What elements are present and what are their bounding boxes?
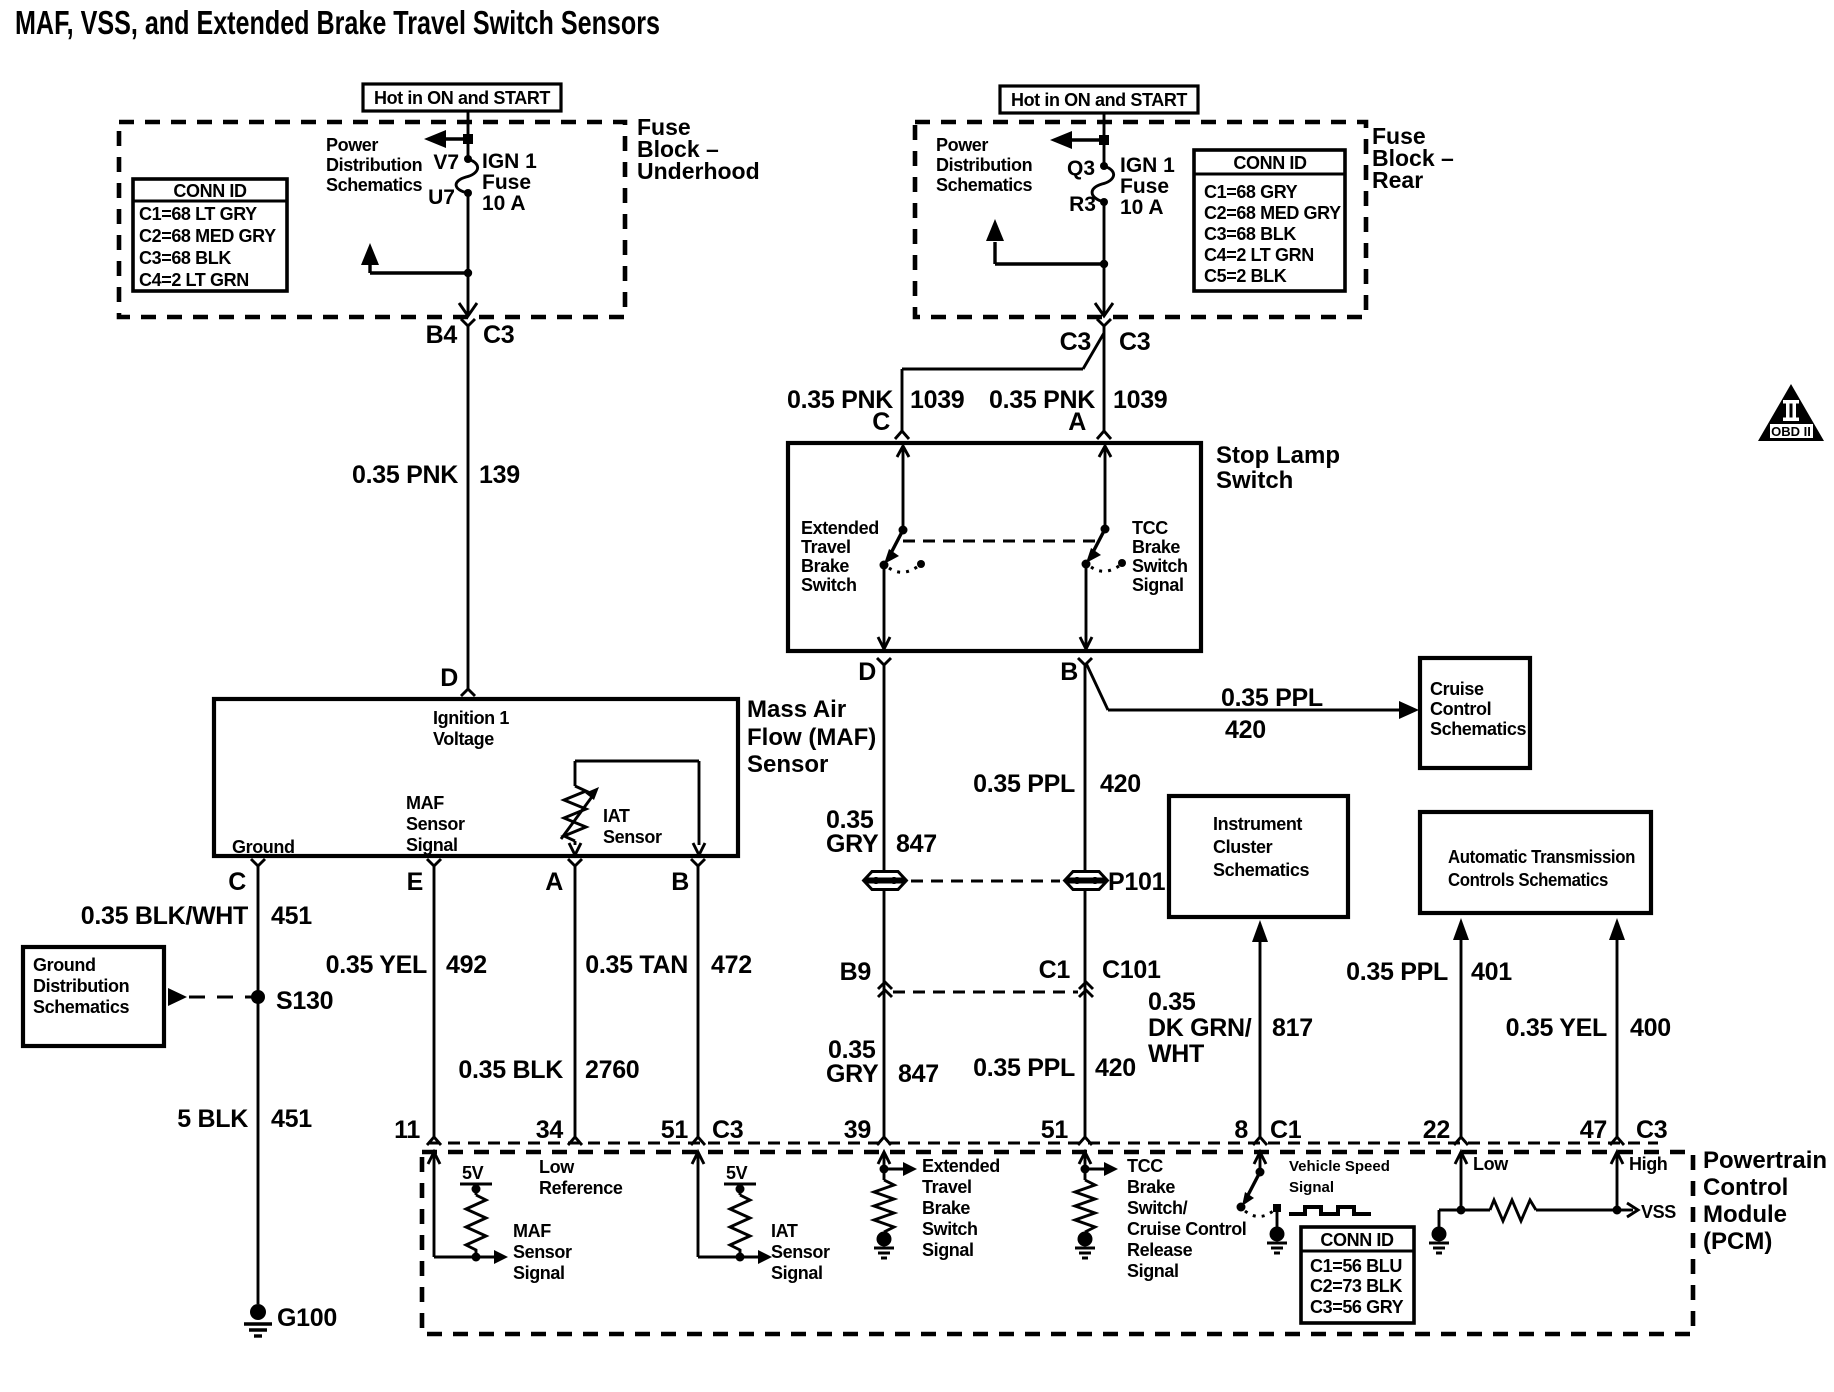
svg-text:Brake: Brake — [1132, 537, 1180, 557]
fuse IGN 1 10A (underhood, V7/U7) — [456, 155, 478, 197]
pin 39 — [844, 1116, 891, 1145]
svg-text:451: 451 — [271, 1105, 312, 1133]
svg-text:Automatic Transmission: Automatic Transmission — [1448, 847, 1635, 867]
svg-text:Schematics: Schematics — [1213, 860, 1309, 880]
svg-text:C4=2 LT GRN: C4=2 LT GRN — [139, 270, 249, 290]
wire label 0.35 PPL 420 (upper) — [973, 770, 1141, 798]
connector C3/C3 (rear fuse to harness) — [1060, 319, 1151, 356]
svg-text:Distribution: Distribution — [326, 155, 422, 175]
power distribution schematics note (underhood) — [326, 135, 422, 195]
svg-text:A: A — [1068, 408, 1086, 436]
svg-text:C5=2 BLK: C5=2 BLK — [1204, 266, 1287, 286]
wire 472: MAF B to PCM pin 51 C3 — [697, 866, 700, 1137]
MAF pin connectors C E A B — [251, 859, 705, 866]
OBD II symbol — [1758, 384, 1824, 441]
PCM maf signal input (pin 11) — [428, 1152, 508, 1264]
svg-text:C3: C3 — [712, 1116, 743, 1144]
svg-text:IGN 1: IGN 1 — [482, 150, 537, 173]
svg-text:420: 420 — [1225, 716, 1266, 744]
power distribution schematics note (rear) — [936, 135, 1032, 195]
5V pullup for IAT signal — [724, 1163, 756, 1257]
down arrow IAT A pin — [569, 843, 581, 855]
svg-text:34: 34 — [536, 1116, 564, 1144]
svg-text:10 A: 10 A — [482, 192, 526, 215]
MAF sensor box — [214, 699, 738, 856]
svg-text:5 BLK: 5 BLK — [177, 1105, 248, 1133]
svg-text:Mass Air: Mass Air — [747, 696, 846, 723]
svg-text:5V: 5V — [462, 1163, 484, 1183]
svg-text:S130: S130 — [276, 987, 333, 1015]
label extended travel brake switch — [801, 518, 879, 595]
svg-text:1039: 1039 — [1113, 386, 1167, 414]
svg-text:C1=68 GRY: C1=68 GRY — [1204, 182, 1298, 202]
svg-text:Release: Release — [1127, 1240, 1193, 1260]
IAT sensor internal circuit — [561, 761, 699, 845]
svg-text:847: 847 — [898, 1060, 939, 1088]
fuse IGN 1 10A (rear, Q3/R3) — [1092, 162, 1114, 206]
wire 2760: MAF A to PCM pin 34 — [574, 866, 577, 1137]
svg-text:R3: R3 — [1069, 193, 1096, 216]
connector C at stop lamp switch — [872, 408, 909, 439]
svg-text:C3=68 BLK: C3=68 BLK — [1204, 224, 1296, 244]
svg-text:C3=68 BLK: C3=68 BLK — [139, 248, 231, 268]
label MAF sensor signal (PCM) — [513, 1221, 572, 1283]
svg-text:TCC: TCC — [1132, 518, 1168, 538]
PCM tcc brake input (pin 51 C2) — [1075, 1152, 1118, 1258]
svg-text:Travel: Travel — [801, 537, 851, 557]
svg-text:Schematics: Schematics — [326, 175, 422, 195]
svg-text:MAF: MAF — [406, 793, 444, 813]
svg-text:VSS: VSS — [1641, 1202, 1676, 1222]
dashed link between P101 grommets — [911, 880, 1060, 883]
svg-text:Signal: Signal — [406, 835, 458, 855]
svg-text:Extended: Extended — [801, 518, 879, 538]
svg-text:Sensor: Sensor — [513, 1242, 572, 1262]
svg-text:Signal: Signal — [771, 1263, 823, 1283]
pin 34 — [536, 1116, 582, 1145]
svg-text:Sensor: Sensor — [747, 751, 828, 778]
svg-text:Low: Low — [1473, 1154, 1509, 1174]
svg-text:Sensor: Sensor — [406, 814, 465, 834]
PCM vss high input (pin 47) — [1611, 1152, 1623, 1215]
svg-text:DK GRN/: DK GRN/ — [1148, 1014, 1252, 1042]
fuse value label IGN 1 Fuse 10 A — [482, 150, 537, 215]
wire label 0.35 YEL 492 — [326, 951, 487, 979]
svg-text:WHT: WHT — [1148, 1040, 1204, 1068]
svg-text:47: 47 — [1580, 1116, 1607, 1144]
label vehicle speed signal — [1289, 1158, 1390, 1196]
svg-text:Controls Schematics: Controls Schematics — [1448, 870, 1608, 890]
wire label 0.35 PNK 139 — [352, 461, 520, 489]
wire 847: stop lamp D down to PCM pin 39 — [883, 665, 886, 1137]
fuse terminal labels V7 U7 — [428, 151, 459, 209]
svg-text:C1=68 LT GRY: C1=68 LT GRY — [139, 204, 257, 224]
wire 817: PCM pin 8 up to instrument cluster — [1252, 920, 1268, 1137]
wire: harness down to branch point — [1103, 326, 1106, 431]
ground distribution schematics box — [23, 947, 164, 1046]
square wave symbol — [1289, 1207, 1371, 1214]
svg-text:139: 139 — [479, 461, 520, 489]
dashed reference link to S130 — [168, 988, 258, 1006]
stop lamp switch box — [788, 443, 1201, 651]
svg-text:C3: C3 — [483, 321, 514, 349]
svg-text:Ground: Ground — [232, 837, 295, 857]
connector D at MAF sensor — [440, 664, 475, 696]
svg-text:C101: C101 — [1102, 956, 1161, 984]
svg-text:400: 400 — [1630, 1014, 1671, 1042]
pin 47 C3 — [1580, 1116, 1668, 1145]
svg-text:Travel: Travel — [922, 1177, 972, 1197]
PCM vehicle speed switch (pin 8) — [1237, 1152, 1288, 1253]
svg-text:C3: C3 — [1119, 328, 1150, 356]
svg-text:0.35 YEL: 0.35 YEL — [1506, 1014, 1607, 1042]
svg-text:492: 492 — [446, 951, 487, 979]
svg-text:V7: V7 — [433, 151, 459, 174]
wire 400: PCM pin 47 up to automatic transmission — [1609, 918, 1625, 1137]
svg-text:Distribution: Distribution — [936, 155, 1032, 175]
PCM extended travel input (pin 39) — [874, 1152, 917, 1258]
label extended travel brake switch signal — [922, 1156, 1000, 1260]
fuse terminal labels Q3 R3 — [1067, 157, 1096, 216]
connector B4/C3 — [426, 319, 515, 349]
svg-text:B4: B4 — [426, 321, 458, 349]
svg-text:C: C — [872, 408, 890, 436]
dashed mechanical link between switch poles — [903, 540, 1095, 543]
ground G100 — [244, 1304, 337, 1336]
svg-text:401: 401 — [1471, 958, 1512, 986]
svg-text:B: B — [1060, 658, 1078, 686]
fuse block rear dashed outline — [915, 122, 1366, 317]
grommet P101 on wire 847 — [865, 872, 905, 890]
svg-text:A: A — [545, 868, 563, 896]
svg-text:Switch: Switch — [1132, 556, 1188, 576]
svg-text:High: High — [1629, 1154, 1667, 1174]
svg-text:Signal: Signal — [513, 1263, 565, 1283]
svg-text:Reference: Reference — [539, 1178, 623, 1198]
svg-text:Fuse: Fuse — [1120, 175, 1169, 198]
svg-text:Instrument: Instrument — [1213, 814, 1302, 834]
svg-text:CONN ID: CONN ID — [1320, 1230, 1394, 1250]
label IAT sensor signal (PCM) — [771, 1221, 830, 1283]
svg-text:451: 451 — [271, 902, 312, 930]
svg-text:CONN ID: CONN ID — [173, 181, 247, 201]
connector D below stop lamp switch — [858, 658, 891, 686]
svg-text:Brake: Brake — [1127, 1177, 1175, 1197]
svg-text:0.35 TAN: 0.35 TAN — [585, 951, 688, 979]
wire label 0.35 GRY 847 (upper) — [826, 806, 937, 858]
svg-text:TCC: TCC — [1127, 1156, 1163, 1176]
splice S130 — [251, 987, 333, 1015]
svg-text:Schematics: Schematics — [33, 997, 129, 1017]
label ignition 1 voltage — [433, 708, 509, 749]
svg-text:MAF, VSS, and Extended Brake T: MAF, VSS, and Extended Brake Travel Swit… — [15, 4, 660, 41]
svg-text:C3=56 GRY: C3=56 GRY — [1310, 1297, 1404, 1317]
svg-text:420: 420 — [1100, 770, 1141, 798]
svg-text:8: 8 — [1234, 1116, 1248, 1144]
svg-text:Cruise: Cruise — [1430, 679, 1484, 699]
label tcc brake switch / cruise control release signal — [1127, 1156, 1246, 1281]
svg-text:E: E — [407, 868, 423, 896]
PCM iat signal input (pin 51 C3) — [692, 1152, 772, 1264]
svg-text:C2=73 BLK: C2=73 BLK — [1310, 1276, 1402, 1296]
svg-text:0.35 YEL: 0.35 YEL — [326, 951, 427, 979]
svg-text:Ignition 1: Ignition 1 — [433, 708, 509, 728]
svg-text:Schematics: Schematics — [1430, 719, 1526, 739]
svg-text:847: 847 — [896, 830, 937, 858]
svg-text:Control: Control — [1703, 1174, 1788, 1201]
svg-text:Hot in ON and START: Hot in ON and START — [374, 88, 550, 108]
label low reference (pin 34) — [539, 1157, 623, 1198]
svg-text:Hot in ON and START: Hot in ON and START — [1011, 90, 1187, 110]
svg-text:Stop Lamp: Stop Lamp — [1216, 442, 1340, 469]
wire label 0.35 BLK/WHT 451 — [81, 902, 312, 930]
svg-text:IAT: IAT — [771, 1221, 798, 1241]
svg-text:Signal: Signal — [1289, 1179, 1334, 1196]
wire label 0.35 PPL 401 — [1346, 958, 1512, 986]
wire label 0.35 PPL 420 (cruise branch) — [1221, 684, 1323, 744]
svg-text:Fuse: Fuse — [482, 171, 531, 194]
svg-text:Cruise Control: Cruise Control — [1127, 1219, 1246, 1239]
svg-text:5V: 5V — [726, 1163, 748, 1183]
svg-text:Brake: Brake — [801, 556, 849, 576]
fuse block underhood name — [637, 114, 760, 184]
svg-text:Flow (MAF): Flow (MAF) — [747, 724, 876, 751]
svg-text:Module: Module — [1703, 1201, 1787, 1228]
svg-text:Extended: Extended — [922, 1156, 1000, 1176]
svg-text:Switch: Switch — [801, 575, 857, 595]
svg-text:Sensor: Sensor — [771, 1242, 830, 1262]
wire 492: MAF E to PCM pin 11 — [433, 866, 436, 1137]
svg-text:Sensor: Sensor — [603, 827, 662, 847]
svg-text:Signal: Signal — [922, 1240, 974, 1260]
svg-text:Rear: Rear — [1372, 167, 1423, 193]
wire label 5 BLK 451 — [177, 1105, 312, 1133]
svg-text:Brake: Brake — [922, 1198, 970, 1218]
svg-text:C3: C3 — [1636, 1116, 1667, 1144]
svg-text:0.35 BLK/WHT: 0.35 BLK/WHT — [81, 902, 248, 930]
vss sense resistor — [1461, 1200, 1617, 1221]
svg-text:B9: B9 — [840, 958, 871, 986]
PCM vss low input (pin 22) — [1429, 1152, 1467, 1253]
svg-text:C1: C1 — [1039, 956, 1071, 984]
svg-text:C4=2 LT GRN: C4=2 LT GRN — [1204, 245, 1314, 265]
wire label 0.35 GRY 847 (lower) — [826, 1036, 939, 1088]
svg-text:472: 472 — [711, 951, 752, 979]
svg-text:C1: C1 — [1270, 1116, 1302, 1144]
down arrow IAT B pin — [693, 843, 705, 855]
svg-text:Signal: Signal — [1132, 575, 1184, 595]
svg-text:0.35 PPL: 0.35 PPL — [1221, 684, 1323, 712]
svg-text:Switch: Switch — [922, 1219, 978, 1239]
wire label 0.35 PPL 420 (lower) — [973, 1054, 1136, 1082]
wire label 0.35 PNK 1039 (right) — [989, 386, 1167, 414]
connector B below stop lamp switch — [1060, 658, 1092, 686]
connector A at stop lamp switch — [1068, 408, 1111, 439]
svg-text:IGN 1: IGN 1 — [1120, 154, 1175, 177]
svg-text:Q3: Q3 — [1067, 157, 1095, 180]
hot-in-on box (left fuse block underhood) — [363, 84, 561, 111]
svg-text:Voltage: Voltage — [433, 729, 494, 749]
fuse value label IGN 1 Fuse 10 A (rear) — [1120, 154, 1175, 219]
svg-text:B: B — [671, 868, 689, 896]
svg-text:817: 817 — [1272, 1014, 1313, 1042]
svg-text:GRY: GRY — [826, 830, 879, 858]
vss output arrow — [1617, 1202, 1676, 1222]
svg-text:Cluster: Cluster — [1213, 837, 1273, 857]
dashed link at inline connector C101 — [893, 991, 1078, 994]
down arrow at underhood exit — [459, 303, 477, 316]
pin 11 — [394, 1116, 441, 1145]
svg-text:11: 11 — [394, 1116, 420, 1144]
svg-text:0.35 PNK: 0.35 PNK — [352, 461, 458, 489]
wire label 0.35 YEL 400 — [1506, 1014, 1671, 1042]
wire 139: B4 to MAF sensor D — [467, 326, 470, 689]
wire 420: stop lamp B down to PCM pin 51 — [1084, 665, 1087, 1137]
wire: branch with up arrow (underhood) — [361, 243, 472, 277]
inline connector B9 — [840, 958, 892, 997]
wire: branch to power distribution (left arrow) — [424, 130, 473, 148]
5V pullup for MAF signal — [460, 1163, 492, 1257]
pin 51 C3 — [661, 1116, 744, 1145]
CONN ID table (fuse block underhood) — [133, 179, 287, 291]
svg-text:D: D — [858, 658, 876, 686]
automatic transmission controls schematics box — [1420, 812, 1651, 913]
svg-text:Powertrain: Powertrain — [1703, 1147, 1827, 1174]
svg-text:Distribution: Distribution — [33, 976, 129, 996]
svg-text:420: 420 — [1095, 1054, 1136, 1082]
label IAT sensor — [603, 806, 662, 847]
svg-text:C3: C3 — [1060, 328, 1091, 356]
svg-text:(PCM): (PCM) — [1703, 1228, 1772, 1255]
svg-text:1039: 1039 — [910, 386, 964, 414]
svg-text:Control: Control — [1430, 699, 1491, 719]
svg-text:C2=68 MED GRY: C2=68 MED GRY — [1204, 203, 1341, 223]
svg-text:GRY: GRY — [826, 1060, 879, 1088]
wire: hot feed into fuse Q3 — [1103, 113, 1106, 166]
fuse block underhood dashed outline — [119, 122, 625, 317]
wire: branch to cruise control schematics — [1086, 663, 1419, 719]
svg-text:MAF: MAF — [513, 1221, 551, 1241]
svg-text:0.35 BLK: 0.35 BLK — [458, 1056, 563, 1084]
label MAF sensor signal — [406, 793, 465, 855]
wire: diagonal branch to stop lamp C — [902, 333, 1104, 431]
svg-text:22: 22 — [1423, 1116, 1450, 1144]
svg-text:Switch/: Switch/ — [1127, 1198, 1188, 1218]
MAF pin letters — [228, 868, 689, 896]
pin 51 C2 — [1041, 1116, 1092, 1145]
svg-text:P101: P101 — [1108, 868, 1166, 896]
svg-text:Power: Power — [936, 135, 988, 155]
wire: branch to power distribution rear (left arrow) — [1050, 131, 1109, 149]
extended travel brake switch (left pole) — [878, 446, 925, 649]
svg-text:Vehicle Speed: Vehicle Speed — [1289, 1158, 1390, 1175]
pin 22 — [1423, 1116, 1468, 1145]
CONN ID table (fuse block rear) — [1194, 150, 1345, 291]
grommet P101 on wire 420 — [1066, 868, 1166, 896]
wire: branch with up arrow (rear) — [986, 219, 1108, 268]
svg-text:0.35: 0.35 — [1148, 988, 1196, 1016]
TCC brake switch (right pole) — [1080, 446, 1126, 649]
svg-text:IAT: IAT — [603, 806, 630, 826]
svg-text:Switch: Switch — [1216, 467, 1293, 494]
svg-text:C: C — [228, 868, 246, 896]
PCM connector face dashed line — [428, 1142, 1658, 1145]
svg-text:Ground: Ground — [33, 955, 96, 975]
hot-in-on box (fuse block rear) — [1000, 86, 1198, 113]
wire: hot feed into fuse V7 — [467, 111, 470, 159]
svg-text:CONN ID: CONN ID — [1233, 153, 1307, 173]
wire: fuse R3 down to exit — [1103, 202, 1106, 316]
svg-text:Schematics: Schematics — [936, 175, 1032, 195]
stop lamp switch name — [1216, 442, 1340, 494]
svg-text:51: 51 — [1041, 1116, 1069, 1144]
svg-text:0.35 PPL: 0.35 PPL — [973, 1054, 1075, 1082]
label TCC brake switch signal — [1132, 518, 1188, 595]
cruise control schematics box — [1420, 658, 1530, 768]
svg-text:Power: Power — [326, 135, 378, 155]
PCM dashed outline — [422, 1152, 1693, 1334]
svg-text:Low: Low — [539, 1157, 575, 1177]
svg-text:Underhood: Underhood — [637, 158, 760, 184]
inline connector C1/C101 — [1039, 956, 1161, 997]
svg-text:G100: G100 — [277, 1304, 337, 1332]
svg-text:C2=68 MED GRY: C2=68 MED GRY — [139, 226, 276, 246]
svg-text:2760: 2760 — [585, 1056, 639, 1084]
wire label 0.35 BLK 2760 — [458, 1056, 639, 1084]
svg-text:OBD II: OBD II — [1771, 424, 1811, 439]
svg-text:51: 51 — [661, 1116, 689, 1144]
wire label 0.35 DK GRN/WHT 817 — [1148, 988, 1313, 1068]
wire label 0.35 PNK 1039 (left) — [787, 386, 964, 414]
svg-text:0.35 PPL: 0.35 PPL — [973, 770, 1075, 798]
down arrow at rear fuse exit — [1095, 303, 1113, 316]
svg-text:0.35 PPL: 0.35 PPL — [1346, 958, 1448, 986]
instrument cluster schematics box — [1169, 796, 1348, 917]
fuse block rear name — [1372, 123, 1454, 193]
MAF sensor name — [747, 696, 876, 778]
wire: fuse U7 down to exit — [467, 193, 470, 316]
svg-text:10 A: 10 A — [1120, 196, 1164, 219]
svg-text:Signal: Signal — [1127, 1261, 1179, 1281]
svg-text:D: D — [440, 664, 458, 692]
PCM name — [1703, 1147, 1827, 1255]
wire label 0.35 TAN 472 — [585, 951, 752, 979]
pin 8 C1 — [1234, 1116, 1301, 1145]
svg-text:C1=56 BLU: C1=56 BLU — [1310, 1256, 1402, 1276]
svg-text:39: 39 — [844, 1116, 871, 1144]
CONN ID table (PCM) — [1301, 1227, 1414, 1323]
wire 451: MAF C to G100 — [257, 866, 260, 1304]
svg-text:U7: U7 — [428, 186, 455, 209]
wire 401: PCM pin 22 up to automatic transmission — [1453, 918, 1469, 1137]
